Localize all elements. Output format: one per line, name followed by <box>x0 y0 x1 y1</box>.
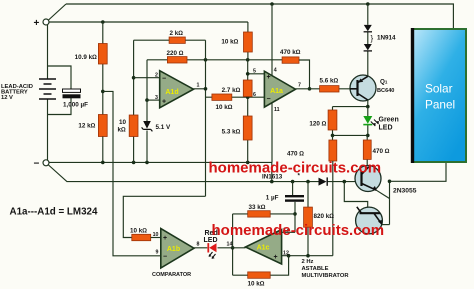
wire pin 4 to top rail <box>271 4 273 76</box>
svg-text:470 Ω: 470 Ω <box>287 151 304 158</box>
wire A1b output row <box>296 88 352 90</box>
svg-text:+: + <box>162 99 166 106</box>
svg-text:10.9 kΩ: 10.9 kΩ <box>75 54 98 61</box>
node junction row106 <box>366 105 370 109</box>
svg-text:+: + <box>163 235 167 242</box>
svg-text:kΩ: kΩ <box>118 126 127 133</box>
wire pin 5 row <box>248 73 265 75</box>
wire row y135.4 <box>333 134 368 136</box>
svg-text:5.3 kΩ: 5.3 kΩ <box>222 129 241 136</box>
resistor 5.3k <box>222 116 252 140</box>
svg-text:10 kΩ: 10 kΩ <box>221 39 238 46</box>
capacitor 1,000uF <box>48 66 89 115</box>
svg-text:470 kΩ: 470 kΩ <box>280 49 301 56</box>
LED green <box>363 107 398 136</box>
svg-text:8: 8 <box>197 242 200 248</box>
node pin5 junction <box>246 72 250 76</box>
svg-text:−: − <box>162 76 166 83</box>
svg-text:A1b: A1b <box>167 246 180 253</box>
wire pin 6 row <box>248 96 265 98</box>
resistor 470 left <box>287 135 337 161</box>
resistor 820k <box>304 182 335 256</box>
svg-text:12 V: 12 V <box>1 95 13 101</box>
label astable <box>302 259 350 279</box>
diode 1N914 pair <box>364 4 396 76</box>
wire to solar panel bottom <box>390 162 447 181</box>
label LM324 note <box>10 207 98 218</box>
svg-text:LED: LED <box>379 125 393 132</box>
wire collector row y106.6 <box>333 106 368 108</box>
svg-text:Green: Green <box>379 117 399 124</box>
battery B1 lead-acid <box>1 25 56 160</box>
svg-text:1,000 µF: 1,000 µF <box>63 102 88 109</box>
wire feedback column x232.6 <box>231 214 235 275</box>
node output junction <box>204 87 208 91</box>
node junctions 220 row <box>204 58 250 62</box>
svg-text:A1c: A1c <box>257 245 270 252</box>
resistor 220 <box>147 50 282 63</box>
svg-text:Solar: Solar <box>425 82 453 96</box>
svg-text:BC640: BC640 <box>377 88 394 94</box>
resistor 33k <box>233 204 295 217</box>
svg-text:−: − <box>34 159 40 170</box>
wire A1a output <box>194 88 206 90</box>
svg-text:10: 10 <box>119 119 127 126</box>
resistor 10.9k <box>75 22 108 115</box>
node junction top rail diode column <box>366 2 370 6</box>
node junctions negative rail <box>101 161 250 165</box>
svg-text:4: 4 <box>274 68 277 74</box>
svg-text:+: + <box>274 254 278 261</box>
svg-text:10: 10 <box>153 232 159 238</box>
wire lower rail from - node <box>49 165 361 182</box>
resistor 10k astable <box>233 256 289 288</box>
op-amp A1d <box>155 71 199 108</box>
svg-text:homemade-circuits.com: homemade-circuits.com <box>212 222 385 239</box>
svg-text:220 Ω: 220 Ω <box>167 50 184 57</box>
svg-text:9: 9 <box>156 250 159 256</box>
svg-text:Q1: Q1 <box>380 79 388 86</box>
svg-text:6: 6 <box>253 92 256 98</box>
wire negative rail <box>49 162 272 181</box>
resistor 470 right <box>363 135 389 166</box>
wire top positive rail <box>66 4 453 29</box>
wire comparator hysteresis loop <box>123 196 205 237</box>
svg-text:12 kΩ: 12 kΩ <box>78 123 95 130</box>
svg-text:5: 5 <box>253 69 256 75</box>
svg-text:7: 7 <box>298 83 301 89</box>
wire pin 2 row <box>134 77 160 79</box>
node junctions lower rail <box>291 180 310 184</box>
svg-text:14: 14 <box>227 242 233 248</box>
svg-text:3: 3 <box>155 95 158 101</box>
resistor 5.6k <box>320 78 340 93</box>
wire Q1 collector down <box>367 100 369 107</box>
resistor 10k horizontal <box>206 94 248 111</box>
svg-text:120 Ω: 120 Ω <box>309 121 326 128</box>
resistor 120 <box>309 107 336 136</box>
node junction cap 33k <box>293 212 297 216</box>
svg-text:homemade-circuits.com: homemade-circuits.com <box>209 160 382 177</box>
capacitor 1uF <box>266 182 304 233</box>
svg-text:10 kΩ: 10 kΩ <box>130 228 147 235</box>
node + terminal <box>34 18 50 29</box>
node pin2 junction <box>132 76 136 80</box>
svg-text:11: 11 <box>274 107 280 113</box>
watermark 1 <box>209 160 382 177</box>
svg-text:820 kΩ: 820 kΩ <box>314 213 335 220</box>
svg-text:−: − <box>163 254 167 261</box>
wire zener column x147 <box>146 60 148 163</box>
transistor Q3 2N3055 lower <box>344 182 389 234</box>
svg-text:2 Hz: 2 Hz <box>302 259 314 265</box>
watermark 2 <box>212 222 385 239</box>
svg-text:COMPARATOR: COMPARATOR <box>152 272 191 278</box>
svg-text:1 µF: 1 µF <box>266 195 279 202</box>
node junctions pin12 row <box>287 254 310 258</box>
node junction 470k output <box>308 87 312 91</box>
node junction + rail divider <box>101 20 105 24</box>
wire pin13 row <box>282 231 295 233</box>
svg-text:A1a---A1d = LM324: A1a---A1d = LM324 <box>10 207 98 218</box>
transistor Q2 2N3055 upper <box>355 166 390 199</box>
label 2N3055 <box>393 188 417 195</box>
resistor 2.7k <box>222 80 252 97</box>
wire comparator output row <box>194 247 246 249</box>
node pin6 junction <box>246 95 250 99</box>
svg-text:2.7 kΩ: 2.7 kΩ <box>222 87 241 94</box>
svg-text:2 kΩ: 2 kΩ <box>170 30 184 37</box>
node divider tap <box>101 90 105 94</box>
wire + rail <box>49 21 248 23</box>
node - terminal <box>34 159 50 170</box>
wire feedback column x133.6 <box>133 40 135 162</box>
node pin3 junction <box>145 98 149 102</box>
diode 1N1613 <box>262 173 327 186</box>
svg-text:1: 1 <box>197 83 200 89</box>
svg-text:MULTIVIBRATOR: MULTIVIBRATOR <box>302 273 350 279</box>
wire pin 3 row <box>147 99 160 101</box>
svg-text:A1a: A1a <box>270 88 283 95</box>
svg-text:5.6 kΩ: 5.6 kΩ <box>320 78 339 85</box>
zener diode 5.1V <box>142 121 171 131</box>
node junction base <box>343 180 347 184</box>
resistor 10k vertical left <box>118 115 139 137</box>
resistor 470k feedback <box>280 49 310 89</box>
svg-text:+: + <box>267 74 271 81</box>
wire pin12 row <box>282 255 333 257</box>
solar panel <box>411 28 466 163</box>
svg-text:A1d: A1d <box>165 89 178 96</box>
node junctions row135 <box>331 134 370 138</box>
svg-text:}: } <box>371 34 374 43</box>
LED red <box>204 230 218 259</box>
node pin11 lower rail <box>270 180 274 184</box>
wire divider column x247.7 <box>247 60 249 163</box>
resistor 10k vertical top <box>221 22 252 60</box>
svg-text:5.1 V: 5.1 V <box>156 124 172 131</box>
svg-text:1N914: 1N914 <box>377 35 396 42</box>
resistor 2k feedback <box>134 30 206 43</box>
wire long column x205.5 <box>205 40 207 196</box>
svg-text:10 kΩ: 10 kΩ <box>216 104 233 111</box>
wire diagonal from + node to top rail <box>49 4 67 20</box>
resistor 12k <box>78 115 107 163</box>
wire 470L column down to pin12 row <box>332 161 334 256</box>
resistor 10k comparator <box>130 228 161 241</box>
svg-text:−: − <box>267 96 271 103</box>
svg-text:+: + <box>34 18 40 29</box>
transistor Q1 BC640 <box>350 75 394 101</box>
node junction top rail pin4 <box>270 2 274 6</box>
op-amp A1c astable <box>227 228 289 265</box>
svg-text:12: 12 <box>283 251 289 257</box>
svg-text:33 kΩ: 33 kΩ <box>249 204 266 211</box>
svg-text:10 kΩ: 10 kΩ <box>248 281 265 288</box>
svg-text:Panel: Panel <box>425 98 455 112</box>
op-amp A1b comparator <box>152 229 200 279</box>
svg-text:470 Ω: 470 Ω <box>373 148 390 155</box>
wire battery sense line to comparator pin 9 <box>103 91 161 255</box>
wire pin 11 down <box>271 103 273 162</box>
op-amp A1a <box>253 68 301 114</box>
svg-text:2: 2 <box>155 73 158 79</box>
svg-text:ASTABLE: ASTABLE <box>302 266 329 272</box>
wire panel junction column <box>388 180 392 225</box>
svg-text:2N3055: 2N3055 <box>393 188 417 195</box>
